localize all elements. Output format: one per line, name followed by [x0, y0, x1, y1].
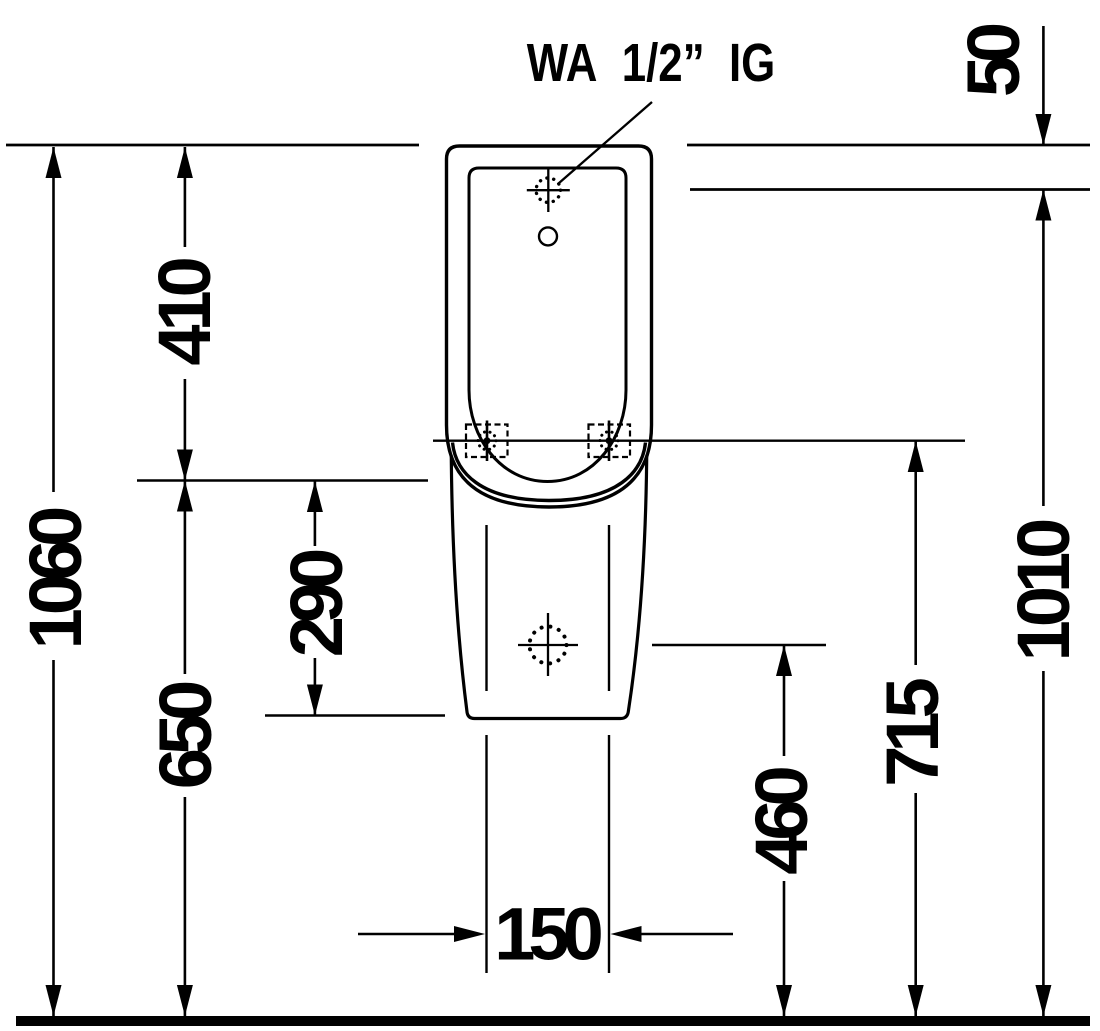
svg-text:1010: 1010 [1002, 520, 1085, 661]
svg-text:290: 290 [275, 550, 358, 657]
svg-text:WA 1/2” IG: WA 1/2” IG [527, 34, 776, 93]
svg-text:50: 50 [952, 24, 1035, 97]
svg-text:460: 460 [740, 767, 823, 874]
svg-text:1060: 1060 [14, 508, 97, 649]
svg-text:650: 650 [144, 682, 227, 789]
svg-text:150: 150 [494, 893, 601, 976]
svg-text:410: 410 [143, 258, 226, 365]
svg-text:715: 715 [871, 678, 954, 786]
